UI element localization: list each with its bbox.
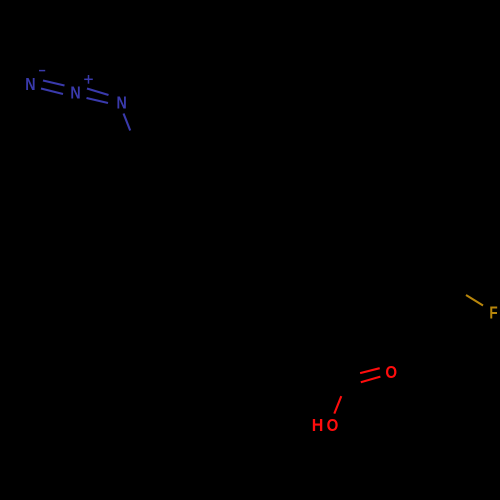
bond N2=N3 double bond line b [87,98,109,103]
svg-text:O: O [385,362,397,382]
charge plus on N2 [84,78,93,80]
bond N3-C nitrogen half [124,114,131,131]
bond C=O double bond line a (oxygen half) [360,368,380,373]
svg-text:N: N [70,83,80,103]
svg-text:F: F [489,302,498,322]
bond N1=N2 double bond line a [43,81,65,86]
svg-text:N: N [117,93,127,113]
bond O-C hydroxyl oxygen half [334,396,341,414]
svg-text:N: N [25,74,35,94]
charge minus on N1 [39,70,45,72]
bond N2=N3 double bond line a [87,89,109,96]
svg-text:H: H [312,415,324,435]
bond C-F fluorine half [466,295,483,306]
svg-text:O: O [327,415,339,435]
bond C=O double bond line b (oxygen half) [361,377,381,383]
bond N1=N2 double bond line b [41,89,63,95]
